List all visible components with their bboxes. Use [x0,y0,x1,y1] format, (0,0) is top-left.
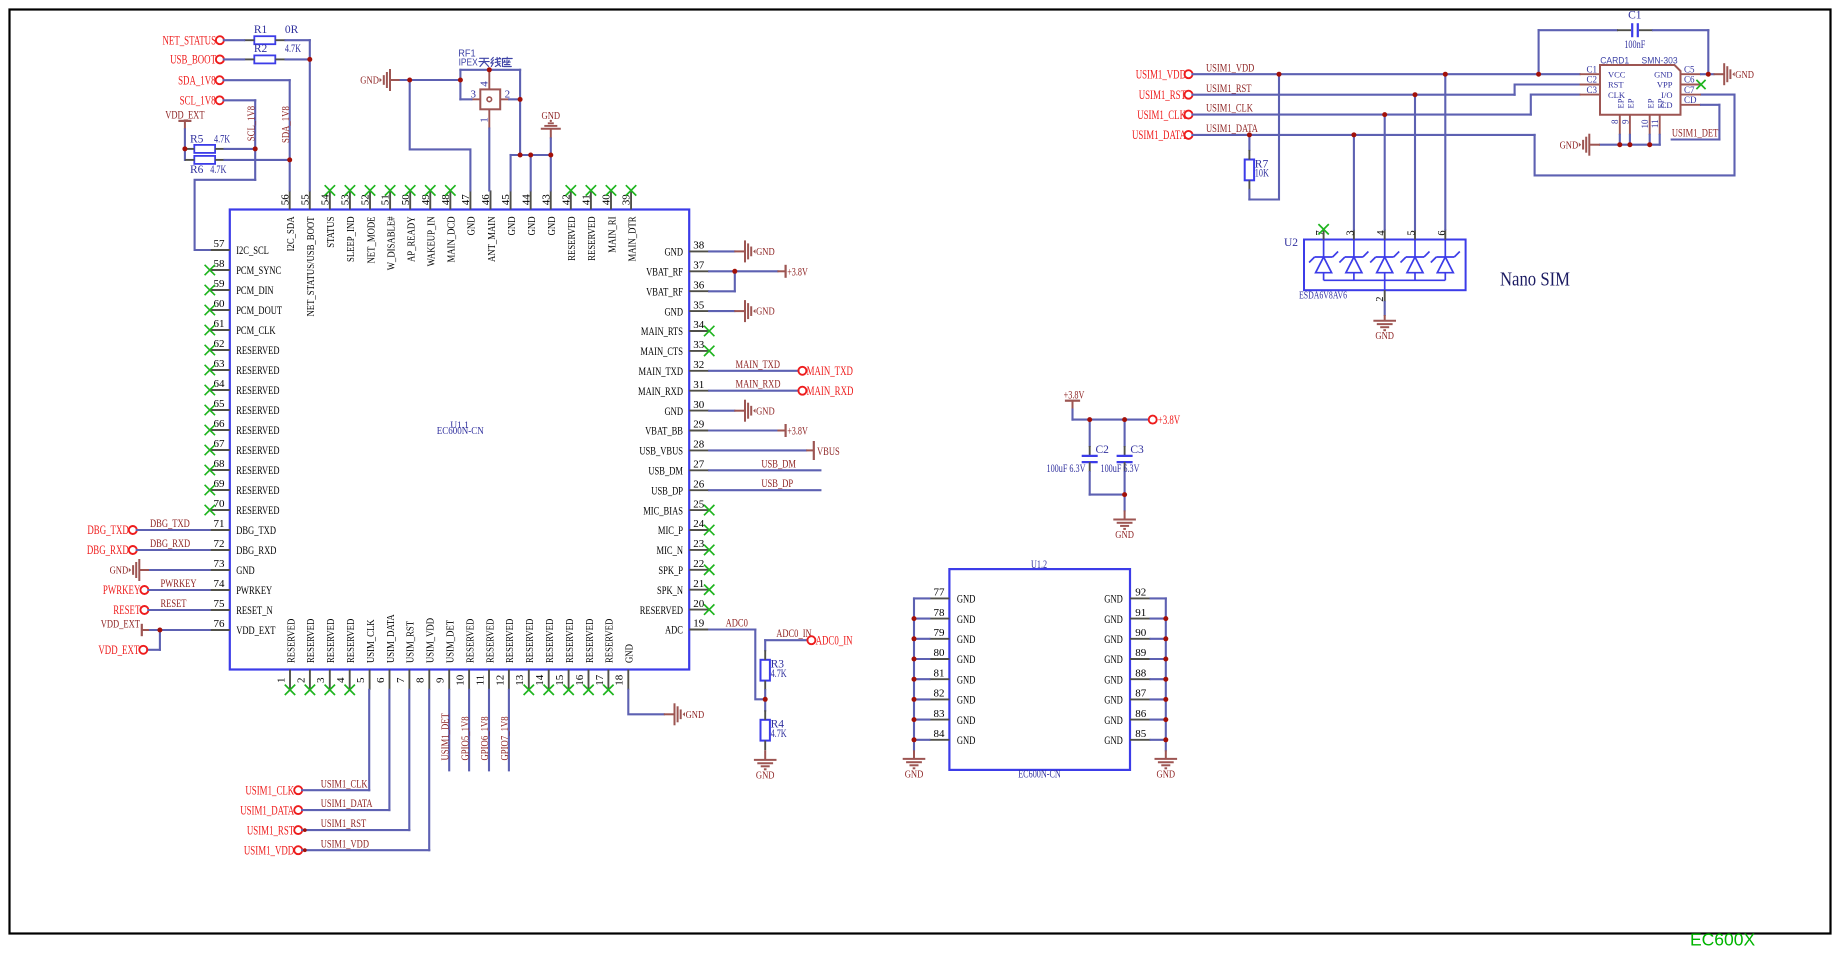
svg-text:NET_STATUS: NET_STATUS [163,33,217,47]
svg-text:100nF: 100nF [1624,39,1645,51]
svg-text:10: 10 [1640,119,1650,129]
svg-text:17: 17 [594,674,606,686]
svg-text:DBG_TXD: DBG_TXD [236,523,276,537]
svg-text:USIM1_VDD: USIM1_VDD [244,844,294,858]
svg-text:35: 35 [693,299,705,311]
svg-text:11: 11 [1650,120,1660,129]
svg-text:C1: C1 [1628,10,1642,22]
svg-text:21: 21 [693,578,704,590]
svg-text:RESERVED: RESERVED [236,503,280,517]
svg-text:74: 74 [214,578,226,590]
svg-text:C2: C2 [1096,444,1110,456]
svg-text:73: 73 [214,558,226,570]
svg-text:EP: EP [1655,98,1665,108]
svg-text:SDA_1V8: SDA_1V8 [281,106,292,143]
svg-text:37: 37 [693,260,705,272]
svg-text:62: 62 [214,338,225,350]
svg-text:MIC_N: MIC_N [657,543,684,557]
svg-text:R5: R5 [190,134,204,146]
svg-text:RESERVED: RESERVED [306,618,317,663]
svg-text:RESERVED: RESERVED [605,618,616,663]
svg-text:36: 36 [693,279,705,291]
svg-text:I2C_SCL: I2C_SCL [236,243,269,257]
svg-text:44: 44 [520,194,532,206]
svg-text:GND: GND [957,612,976,626]
svg-text:EP: EP [1645,98,1655,108]
svg-text:23: 23 [693,538,705,550]
svg-text:18: 18 [614,674,626,686]
svg-text:EC600X: EC600X [1690,930,1756,950]
svg-text:29: 29 [693,419,705,431]
svg-text:USIM1_VDD: USIM1_VDD [1206,60,1255,74]
svg-text:5: 5 [355,677,367,683]
svg-text:92: 92 [1135,587,1146,599]
svg-text:MAIN_CTS: MAIN_CTS [640,344,683,358]
svg-text:U2: U2 [1284,237,1298,249]
svg-text:PCM_CLK: PCM_CLK [236,323,276,337]
svg-text:GND: GND [527,216,538,235]
svg-text:GND: GND [957,672,976,686]
svg-text:79: 79 [934,627,946,639]
svg-text:RESERVED: RESERVED [485,618,496,663]
svg-text:EP: EP [1615,98,1625,108]
svg-text:DBG_RXD: DBG_RXD [236,543,276,557]
svg-text:90: 90 [1135,627,1147,639]
svg-text:CARD1: CARD1 [1600,55,1629,65]
svg-text:VDD_EXT: VDD_EXT [101,616,141,630]
svg-text:GND: GND [542,110,561,122]
svg-text:GND: GND [957,713,976,727]
svg-text:RESERVED: RESERVED [565,618,576,663]
svg-text:USB_VBUS: USB_VBUS [639,444,683,458]
svg-text:AP_READY: AP_READY [406,216,417,262]
svg-text:GND: GND [1735,69,1754,81]
svg-text:GND: GND [1115,529,1134,541]
svg-text:RESERVED: RESERVED [567,216,578,261]
svg-text:USIM1_RST: USIM1_RST [1139,88,1187,102]
svg-text:C3: C3 [1130,444,1144,456]
svg-text:MAIN_RXD: MAIN_RXD [736,377,781,391]
svg-text:5: 5 [1407,230,1418,235]
svg-text:+3.8V: +3.8V [1158,413,1181,427]
svg-text:I/O: I/O [1661,90,1672,100]
svg-text:12: 12 [494,675,506,686]
svg-text:43: 43 [540,194,552,206]
svg-text:4.7K: 4.7K [771,668,788,680]
svg-text:MAIN_RI: MAIN_RI [607,216,618,253]
svg-text:3: 3 [315,677,327,683]
svg-text:SPK_P: SPK_P [658,563,683,577]
svg-text:USIM1_RST: USIM1_RST [247,823,295,837]
svg-text:USIM1_CLK: USIM1_CLK [1206,101,1253,115]
svg-text:SCL_1V8: SCL_1V8 [246,106,257,141]
svg-text:100uF 6.3V: 100uF 6.3V [1047,463,1086,475]
svg-text:PWRKEY: PWRKEY [236,583,272,597]
svg-text:47: 47 [460,194,472,206]
svg-text:RESERVED: RESERVED [286,618,297,663]
svg-text:GND: GND [625,644,636,663]
svg-text:VDD_EXT: VDD_EXT [165,108,205,122]
svg-text:USB_DM: USB_DM [761,456,796,470]
svg-text:GND: GND [957,592,976,606]
svg-text:MAIN_RXD: MAIN_RXD [807,384,854,398]
svg-text:USIM1_VDD: USIM1_VDD [321,836,370,850]
svg-text:USIM1_RST: USIM1_RST [1206,81,1252,95]
svg-text:USIM1_VDD: USIM1_VDD [1136,68,1186,82]
svg-text:RESERVED: RESERVED [236,403,280,417]
svg-text:R1: R1 [254,24,268,36]
svg-text:C3: C3 [1586,85,1597,95]
svg-text:8: 8 [415,677,427,683]
svg-text:13: 13 [514,674,526,686]
svg-text:Nano SIM: Nano SIM [1500,270,1570,291]
svg-text:PWRKEY: PWRKEY [161,576,197,590]
svg-text:70: 70 [214,498,226,510]
svg-text:RESERVED: RESERVED [236,343,280,357]
svg-text:85: 85 [1135,728,1147,740]
svg-text:GND: GND [905,768,924,780]
svg-text:76: 76 [214,618,226,630]
svg-text:GND: GND [1104,713,1123,727]
svg-text:84: 84 [934,728,946,740]
svg-text:R6: R6 [190,164,204,176]
svg-text:ADC0_IN: ADC0_IN [776,626,812,640]
svg-text:16: 16 [574,674,586,686]
svg-text:GND: GND [236,563,255,577]
svg-text:U1.2: U1.2 [1031,559,1047,571]
svg-text:USIM1_DET: USIM1_DET [1672,126,1719,140]
svg-text:C5: C5 [1684,64,1695,74]
svg-text:C6: C6 [1684,75,1695,85]
svg-text:6: 6 [375,677,387,683]
svg-text:PCM_DOUT: PCM_DOUT [236,303,282,317]
svg-text:USIM_RST: USIM_RST [406,620,417,663]
svg-text:USIM1_DATA: USIM1_DATA [1132,128,1186,142]
svg-text:GND: GND [1104,592,1123,606]
svg-text:75: 75 [214,598,226,610]
svg-text:USIM1_CLK: USIM1_CLK [321,776,368,790]
svg-text:SLEEP_IND: SLEEP_IND [346,216,357,262]
svg-text:NET_STATUS/USB_BOOT: NET_STATUS/USB_BOOT [306,216,317,316]
svg-text:68: 68 [214,458,226,470]
svg-text:RESERVED: RESERVED [236,463,280,477]
svg-text:USIM1_RST: USIM1_RST [321,816,367,830]
svg-text:SMN-303: SMN-303 [1642,55,1678,65]
svg-text:3: 3 [471,89,477,101]
svg-text:RST: RST [1608,80,1624,90]
svg-text:USIM_VDD: USIM_VDD [426,618,437,663]
svg-text:55: 55 [299,194,311,206]
svg-text:C7: C7 [1684,85,1695,95]
svg-text:82: 82 [934,688,945,700]
svg-text:71: 71 [214,518,225,530]
svg-text:GND: GND [1104,612,1123,626]
svg-text:GND: GND [1375,330,1394,342]
svg-text:RESET: RESET [161,596,187,610]
svg-text:28: 28 [693,439,705,451]
svg-text:VPP: VPP [1657,80,1673,90]
svg-text:2: 2 [295,677,307,683]
svg-text:59: 59 [214,278,226,290]
svg-text:USIM1_CLK: USIM1_CLK [1137,108,1186,122]
svg-text:81: 81 [934,667,945,679]
svg-text:USB_DM: USB_DM [648,464,683,478]
svg-text:87: 87 [1135,688,1147,700]
svg-text:0R: 0R [285,24,299,36]
svg-text:19: 19 [693,618,705,630]
svg-text:30: 30 [693,399,705,411]
svg-text:RESERVED: RESERVED [236,483,280,497]
svg-text:NET_MODE: NET_MODE [366,217,377,264]
svg-text:1: 1 [479,117,491,123]
svg-text:SDA_1V8: SDA_1V8 [178,73,216,87]
svg-text:GND: GND [957,652,976,666]
svg-text:GND: GND [507,216,518,235]
svg-text:89: 89 [1135,647,1147,659]
svg-text:RESERVED: RESERVED [545,618,556,663]
svg-text:MAIN_TXD: MAIN_TXD [639,364,684,378]
svg-text:VBAT_RF: VBAT_RF [646,265,683,279]
svg-text:DBG_RXD: DBG_RXD [87,543,129,557]
svg-text:31: 31 [693,379,704,391]
svg-text:RESERVED: RESERVED [585,618,596,663]
svg-text:ANT_MAIN: ANT_MAIN [487,216,498,262]
svg-text:RESERVED: RESERVED [465,618,476,663]
svg-text:57: 57 [214,238,226,250]
svg-text:STATUS: STATUS [326,216,337,247]
svg-text:WAKEUP_IN: WAKEUP_IN [427,216,438,266]
svg-text:4.7K: 4.7K [771,728,788,740]
svg-text:EC600N-CN: EC600N-CN [437,426,484,437]
svg-text:GPIO6_1V8: GPIO6_1V8 [480,716,491,760]
svg-text:GPIO7_1V8: GPIO7_1V8 [500,716,511,760]
svg-text:C2: C2 [1586,75,1597,85]
svg-text:GND: GND [957,693,976,707]
svg-text:10: 10 [455,674,467,686]
svg-text:IPEX: IPEX [459,58,478,69]
svg-text:6: 6 [1437,230,1448,235]
svg-text:9: 9 [1620,119,1630,124]
svg-text:SCL_1V8: SCL_1V8 [180,94,216,108]
svg-text:MIC_BIAS: MIC_BIAS [643,503,683,517]
svg-text:VBAT_BB: VBAT_BB [645,424,683,438]
svg-text:VDD_EXT: VDD_EXT [236,623,276,637]
svg-text:GND: GND [957,632,976,646]
svg-text:100uF 6.3V: 100uF 6.3V [1101,463,1140,475]
svg-text:ADC: ADC [665,623,683,637]
svg-text:GND: GND [665,304,684,318]
svg-text:10K: 10K [1255,168,1270,180]
svg-text:8: 8 [1610,119,1620,124]
svg-text:ADC0_IN: ADC0_IN [816,634,853,648]
svg-text:GND: GND [1560,139,1579,151]
svg-text:GND: GND [360,75,379,87]
svg-text:GND: GND [467,216,478,235]
svg-text:GND: GND [1104,693,1123,707]
svg-text:VBUS: VBUS [817,444,840,458]
svg-text:4.7K: 4.7K [210,164,227,176]
svg-text:66: 66 [214,418,226,430]
svg-text:7: 7 [395,677,407,683]
svg-text:MAIN_DCD: MAIN_DCD [447,216,458,262]
svg-text:VDD_EXT: VDD_EXT [98,643,139,657]
svg-text:USB_DP: USB_DP [761,476,793,490]
svg-text:USIM1_DATA: USIM1_DATA [321,796,373,810]
svg-text:RESERVED: RESERVED [587,216,598,261]
svg-text:RESERVED: RESERVED [326,618,337,663]
svg-text:EP: EP [1626,98,1636,108]
svg-text:GND: GND [665,404,684,418]
svg-text:GND: GND [756,246,775,258]
svg-text:64: 64 [214,378,226,390]
svg-text:W_DISABLE#: W_DISABLE# [386,216,397,270]
svg-text:14: 14 [534,674,546,686]
svg-text:GND: GND [547,216,558,235]
svg-text:USIM1_CLK: USIM1_CLK [245,784,294,798]
svg-text:15: 15 [554,674,566,686]
svg-text:26: 26 [693,478,705,490]
svg-text:65: 65 [214,398,226,410]
svg-text:34: 34 [693,319,705,331]
svg-text:77: 77 [934,587,946,599]
svg-text:2: 2 [505,89,511,101]
svg-text:MAIN_TXD: MAIN_TXD [807,364,853,378]
svg-text:CLK: CLK [1608,90,1626,100]
svg-text:SPK_N: SPK_N [657,583,683,597]
svg-text:GND: GND [686,709,705,721]
svg-text:32: 32 [693,359,704,371]
svg-text:USIM1_DET: USIM1_DET [440,713,451,761]
svg-text:PCM_SYNC: PCM_SYNC [236,263,281,277]
svg-text:88: 88 [1135,667,1147,679]
svg-text:+3.8V: +3.8V [787,426,808,438]
svg-text:RESERVED: RESERVED [505,618,516,663]
svg-text:DBG_TXD: DBG_TXD [150,516,190,530]
svg-text:58: 58 [214,258,226,270]
svg-text:RESET: RESET [113,603,140,617]
svg-text:MIC_P: MIC_P [658,523,683,537]
svg-text:USB_DP: USB_DP [651,483,683,497]
svg-text:MAIN_RXD: MAIN_RXD [638,384,683,398]
svg-text:GND: GND [665,245,684,259]
svg-text:RESERVED: RESERVED [346,618,357,663]
svg-text:63: 63 [214,358,226,370]
svg-text:1: 1 [275,677,287,683]
svg-text:RESET_N: RESET_N [236,603,273,617]
svg-text:GND: GND [756,306,775,318]
svg-text:PCM_DIN: PCM_DIN [236,283,274,297]
svg-text:GND: GND [1157,768,1176,780]
svg-text:USIM_DATA: USIM_DATA [386,614,397,663]
svg-text:ADC0: ADC0 [726,616,748,630]
svg-text:MAIN_DTR: MAIN_DTR [627,217,638,262]
svg-text:69: 69 [214,478,226,490]
svg-text:RESERVED: RESERVED [640,603,684,617]
svg-text:RESERVED: RESERVED [525,618,536,663]
svg-text:GND: GND [1104,672,1123,686]
svg-text:83: 83 [934,708,946,720]
svg-text:I2C_SDA: I2C_SDA [286,216,297,251]
svg-text:USIM_DET: USIM_DET [446,619,457,663]
svg-text:72: 72 [214,538,225,550]
svg-text:20: 20 [693,598,705,610]
svg-text:R2: R2 [254,43,268,55]
svg-text:9: 9 [435,677,447,683]
svg-text:80: 80 [934,647,946,659]
svg-text:VCC: VCC [1608,69,1626,79]
svg-text:4: 4 [1376,230,1387,236]
svg-text:38: 38 [693,240,705,252]
svg-text:GND: GND [1654,69,1672,79]
svg-text:11: 11 [474,675,486,686]
svg-text:ESDA6V8AV6: ESDA6V8AV6 [1299,289,1347,301]
svg-text:86: 86 [1135,708,1147,720]
svg-text:RESERVED: RESERVED [236,363,280,377]
svg-text:78: 78 [934,607,946,619]
svg-text:EC600N-CN: EC600N-CN [1018,769,1061,781]
svg-text:USIM1_DATA: USIM1_DATA [240,803,294,817]
svg-text:MAIN_RTS: MAIN_RTS [641,324,683,338]
svg-text:RESERVED: RESERVED [236,443,280,457]
svg-text:3: 3 [1345,230,1356,235]
svg-text:22: 22 [693,558,704,570]
svg-text:GND: GND [1104,733,1123,747]
svg-text:DBG_TXD: DBG_TXD [87,523,128,537]
svg-text:25: 25 [693,498,705,510]
svg-text:RESERVED: RESERVED [236,383,280,397]
svg-text:46: 46 [480,194,492,206]
svg-text:33: 33 [693,339,705,351]
svg-text:MAIN_TXD: MAIN_TXD [736,357,781,371]
svg-text:GND: GND [756,769,775,781]
svg-text:GND: GND [1104,652,1123,666]
svg-text:91: 91 [1135,607,1146,619]
svg-text:24: 24 [693,518,705,530]
svg-text:+3.8V: +3.8V [787,266,808,278]
svg-text:4: 4 [479,81,491,87]
svg-text:4.7K: 4.7K [214,134,231,146]
svg-text:USIM_CLK: USIM_CLK [366,619,377,663]
svg-text:45: 45 [500,194,512,206]
svg-text:GND: GND [756,405,775,417]
svg-text:4.7K: 4.7K [285,43,302,55]
svg-text:60: 60 [214,298,226,310]
svg-text:GND: GND [110,565,129,577]
svg-text:27: 27 [693,459,705,471]
svg-text:DBG_RXD: DBG_RXD [150,536,190,550]
svg-text:67: 67 [214,438,226,450]
svg-text:GND: GND [1104,632,1123,646]
svg-text:C1: C1 [1586,64,1597,74]
svg-text:VBAT_RF: VBAT_RF [646,284,683,298]
svg-text:USB_BOOT: USB_BOOT [170,53,216,67]
svg-text:GPIO5_1V8: GPIO5_1V8 [460,716,471,760]
svg-text:PWRKEY: PWRKEY [103,583,141,597]
svg-text:CD: CD [1684,95,1697,105]
svg-text:GND: GND [957,733,976,747]
svg-text:56: 56 [279,194,291,206]
svg-text:4: 4 [335,677,347,683]
svg-text:61: 61 [214,318,225,330]
svg-text:RESERVED: RESERVED [236,423,280,437]
